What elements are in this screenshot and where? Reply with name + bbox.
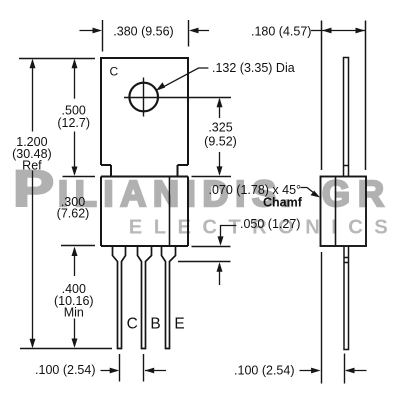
.400 dimension (74, 249, 76, 277)
.325 dimension (192, 176, 232, 178)
.300 text (57, 195, 90, 221)
svg-text:C: C (127, 315, 138, 332)
watermark PILIANIDIS.GR (13, 160, 388, 239)
lead E (front) (162, 246, 176, 349)
lead B (front) (138, 246, 152, 349)
side lead (344, 246, 349, 350)
svg-text:(9.52): (9.52) (204, 135, 237, 149)
svg-text:.325: .325 (208, 121, 232, 135)
.050 lower arrow (219, 264, 221, 285)
svg-text:.132 (3.35) Dia: .132 (3.35) Dia (212, 61, 295, 75)
body bottom extension (192, 246, 231, 248)
side tab plate (344, 58, 349, 177)
tick at body bottom level (61, 245, 95, 247)
lead labels (127, 315, 185, 332)
front body inner line (169, 177, 171, 247)
mounting hole (129, 83, 158, 112)
svg-text:E: E (174, 315, 184, 332)
top extension line (left) (19, 58, 95, 60)
taper bottom extension (178, 261, 231, 263)
svg-text:(12.7): (12.7) (57, 116, 90, 130)
.380 arrows (80, 30, 100, 32)
front view body outline (101, 177, 188, 247)
svg-text:C: C (110, 64, 119, 78)
chamfer leader arrow (301, 188, 318, 196)
svg-text:.100 (2.54): .100 (2.54) (234, 364, 294, 378)
bottom extension line (left) (20, 348, 112, 350)
svg-text:Chamf: Chamf (263, 195, 303, 209)
svg-text:Ref: Ref (22, 158, 42, 172)
.050 bracket (221, 226, 237, 244)
svg-text:.050 (1.27): .050 (1.27) (240, 217, 300, 231)
1.200 dimension line (32, 61, 34, 347)
side body inner line (335, 177, 337, 247)
.380 extension lines (103, 20, 189, 52)
lead C (front) (113, 246, 126, 349)
side view body (321, 177, 367, 247)
svg-text:.180 (4.57): .180 (4.57) (251, 24, 311, 38)
svg-text:.380 (9.56): .380 (9.56) (113, 24, 173, 38)
svg-text:R: R (358, 173, 384, 214)
.500 dimension (74, 61, 76, 99)
side view body extension lines (322, 21, 366, 171)
.180 dimension line (322, 30, 366, 32)
hole crosshair (124, 78, 231, 117)
svg-text:Min: Min (64, 305, 84, 319)
svg-text:(7.62): (7.62) (57, 207, 90, 221)
svg-text:B: B (150, 315, 160, 332)
tick at notch level (63, 176, 96, 178)
front view tab outline (100, 58, 189, 177)
svg-text:.100 (2.54): .100 (2.54) (35, 363, 95, 377)
